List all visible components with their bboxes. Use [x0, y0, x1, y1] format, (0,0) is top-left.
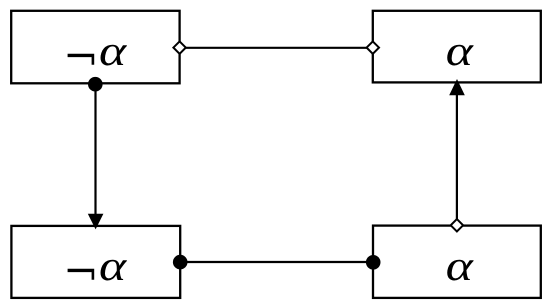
node filled circle bottom-right: [366, 255, 381, 270]
box not-alpha bottom-left: [11, 226, 180, 298]
label alpha bottom-right: [447, 260, 473, 281]
box not-alpha top-left: [11, 11, 179, 84]
wire top association: [180, 47, 373, 49]
wire right association: [456, 94, 458, 220]
node filled circle top-left: [88, 77, 103, 92]
label alpha bottom-left: [101, 260, 127, 281]
diamond top-right open aggregation: [367, 41, 379, 53]
arrowhead up into top-right box: [449, 79, 465, 95]
box alpha bottom-right: [373, 226, 541, 298]
arrowhead down into bottom-left box: [88, 214, 104, 230]
wire left association: [94, 83, 96, 216]
label alpha top-left: [101, 45, 127, 66]
diamond top-left open aggregation: [173, 41, 185, 53]
node filled circle bottom-left: [173, 255, 188, 270]
label not sign bottom-left: [68, 269, 95, 280]
box alpha top-right: [373, 11, 541, 83]
label not sign top-left: [68, 54, 95, 65]
diamond bottom-right open aggregation: [451, 219, 463, 231]
label alpha top-right: [447, 45, 473, 66]
wire bottom association: [180, 261, 373, 263]
